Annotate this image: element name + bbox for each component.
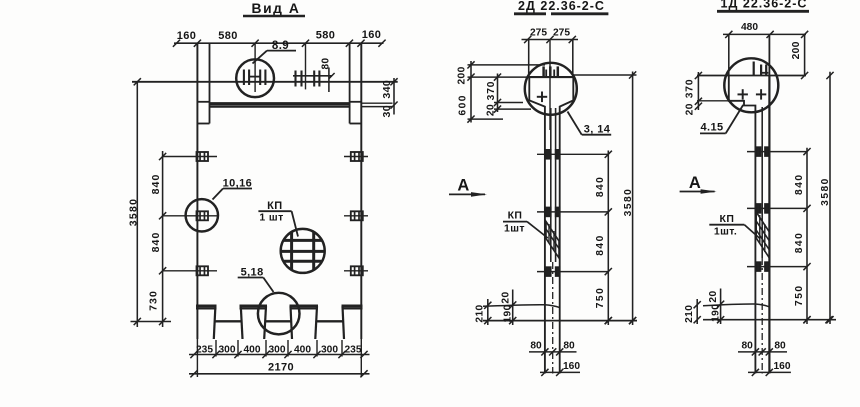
top dim 275 275	[522, 39, 579, 41]
svg-text:3580: 3580	[128, 198, 140, 227]
rebar outlets in circle 8.9	[243, 70, 245, 86]
embedded tab middle 2	[545, 207, 551, 216]
embedded tab right view 3	[755, 262, 760, 271]
shaft centre dash-dot	[552, 262, 554, 374]
svg-text:1 шт: 1 шт	[259, 212, 283, 224]
svg-text:3580: 3580	[623, 188, 634, 217]
svg-text:80: 80	[563, 341, 575, 352]
cross mark middle	[537, 96, 547, 98]
extension head right	[768, 34, 770, 75]
svg-text:5,18: 5,18	[241, 266, 264, 278]
rebar outlets middle head	[542, 66, 544, 77]
foot 1 right side	[214, 306, 216, 339]
title underline right	[717, 10, 809, 13]
svg-text:840: 840	[150, 232, 162, 253]
ext concrete top left	[468, 76, 530, 78]
extension line left leg outer edge	[196, 43, 198, 339]
embedded tab right view 2	[755, 204, 760, 213]
svg-text:80: 80	[530, 341, 542, 352]
rebar outlets right view	[753, 62, 755, 76]
svg-text:840: 840	[150, 174, 162, 195]
svg-text:1шт.: 1шт.	[714, 226, 737, 238]
grid horizontal 1	[283, 239, 322, 242]
foot 3 top edge double line	[290, 305, 319, 308]
beam bottom extension right upper	[361, 102, 392, 104]
svg-text:480: 480	[741, 22, 758, 33]
embedded tab middle 3	[545, 267, 551, 276]
svg-text:1Д 22.36-2-С: 1Д 22.36-2-С	[721, 0, 808, 11]
right dim 3580 right view	[829, 72, 831, 324]
svg-text:400: 400	[244, 344, 261, 355]
embedded tab right view 1	[755, 147, 760, 156]
bottom dim 80 80 right view	[738, 351, 787, 353]
svg-text:200: 200	[457, 66, 468, 84]
svg-text:400: 400	[294, 344, 311, 355]
embedded tab left leg 2	[197, 211, 209, 220]
extension lines to left leg tabs	[163, 156, 217, 158]
leader 8.9	[253, 51, 268, 64]
embedded tab left leg 1	[197, 152, 209, 161]
left overall dim line 3580	[136, 82, 138, 327]
extension centre rebar left	[254, 43, 256, 92]
svg-text:2Д 22.36-2-С: 2Д 22.36-2-С	[518, 0, 605, 13]
leader 3,14	[568, 112, 582, 135]
svg-text:840: 840	[595, 234, 606, 256]
column right edge	[768, 76, 770, 374]
ext slant bottom	[494, 108, 531, 110]
svg-text:750: 750	[794, 284, 805, 306]
svg-text:235: 235	[196, 344, 213, 355]
leader 10,16	[213, 189, 224, 200]
svg-text:3580: 3580	[820, 177, 831, 206]
cross marks right view	[738, 93, 748, 95]
svg-text:80: 80	[742, 341, 754, 352]
left leg step top	[197, 101, 209, 103]
svg-text:370: 370	[685, 79, 696, 99]
svg-text:1шт: 1шт	[504, 223, 525, 235]
right dim 3580 middle	[632, 72, 634, 326]
rebar outlets right group	[294, 71, 296, 87]
svg-text:340: 340	[381, 80, 393, 99]
svg-text:160: 160	[563, 361, 580, 372]
column head outline middle	[529, 77, 545, 373]
head bottom ext left	[697, 100, 729, 102]
svg-text:235: 235	[345, 344, 362, 355]
right dim 840-840-750 right view	[806, 148, 808, 324]
svg-text:КП: КП	[508, 210, 523, 222]
title underline middle	[514, 12, 546, 15]
overall dim line 2170	[189, 373, 370, 375]
top dimension line 160-580-580-160	[174, 42, 384, 44]
bottom dim extension verticals	[196, 339, 198, 377]
hatched opening circle KP	[281, 229, 325, 273]
grid vertical 2	[312, 232, 315, 269]
bottom dim 80 80 middle	[529, 351, 577, 353]
svg-text:840: 840	[595, 176, 606, 198]
svg-text:20: 20	[485, 104, 496, 116]
beam bottom second line	[210, 106, 350, 108]
dim 200 right view	[804, 34, 806, 75]
beam bottom thick line	[210, 102, 350, 106]
ext top of outlets	[468, 64, 546, 66]
extension head left	[728, 34, 730, 75]
right dim 840-840-750 middle	[607, 151, 609, 326]
svg-text:2170: 2170	[268, 361, 294, 373]
foot 2 top edge double line	[240, 305, 268, 308]
extension centre rebar right	[305, 43, 307, 89]
dim 20/190 middle	[512, 290, 514, 326]
left dim 200/600	[470, 61, 472, 123]
foot 1 top edge double line	[196, 305, 217, 308]
slanted line at column base middle	[483, 305, 560, 308]
bottom reference extension left	[131, 321, 172, 323]
right leg outer edge	[360, 43, 362, 339]
head top line with extensions right view	[697, 75, 806, 77]
svg-text:370: 370	[486, 81, 497, 101]
svg-text:КП: КП	[267, 200, 282, 212]
ext 600 bottom	[468, 118, 504, 120]
svg-text:30: 30	[381, 105, 393, 117]
dim 210 middle	[487, 299, 489, 325]
slanted line at column base right view	[703, 304, 769, 307]
leader 5,18	[263, 278, 273, 293]
svg-text:160: 160	[774, 361, 791, 372]
dim 20/190 right view	[720, 289, 722, 325]
extension centre line	[549, 40, 551, 131]
extension right head edge	[572, 40, 574, 78]
leader KP right view	[744, 225, 759, 239]
detail circle 10,16	[186, 199, 218, 231]
svg-text:20: 20	[708, 290, 719, 302]
detail circle 5,18	[258, 293, 300, 335]
foot 2 sides	[241, 306, 243, 339]
embedded tab right leg 1	[351, 152, 363, 161]
leader KP middle	[527, 222, 548, 238]
svg-text:200: 200	[791, 41, 802, 59]
svg-text:300: 300	[219, 344, 236, 355]
extension line left leg inner edge	[209, 43, 211, 123]
svg-text:840: 840	[794, 232, 805, 254]
svg-text:750: 750	[595, 287, 606, 309]
grid horizontal 3	[283, 260, 322, 263]
beam top line with extensions	[132, 81, 398, 83]
svg-text:840: 840	[794, 173, 805, 195]
KP channel right view	[756, 212, 769, 258]
top dim 480	[723, 33, 806, 35]
base line bottom middle	[483, 320, 637, 322]
right leg notch bottom	[350, 123, 362, 125]
foot 3 sides	[291, 306, 293, 339]
svg-text:80: 80	[321, 58, 332, 70]
left segment dim line 840-840-730	[162, 151, 164, 327]
detail circle right head	[724, 58, 778, 112]
bottom dim line 235-300-400-300-400-300-235	[189, 354, 370, 356]
svg-text:4.15: 4.15	[700, 122, 723, 134]
right leg inner edge	[349, 43, 351, 123]
bottom dim 160 right view	[748, 371, 791, 373]
title underline	[243, 15, 305, 18]
svg-text:190: 190	[710, 304, 721, 322]
svg-text:3, 14: 3, 14	[584, 124, 611, 136]
embedded tab right leg 2	[351, 211, 363, 220]
left dim 370/20	[497, 74, 499, 113]
dim 340/30 vertical line	[393, 78, 395, 115]
svg-text:20: 20	[685, 103, 696, 115]
shaft inner line right	[555, 108, 557, 262]
recessed bottom between feet	[215, 320, 242, 322]
shaft inner line left	[550, 108, 552, 262]
svg-text:600: 600	[458, 94, 469, 116]
column head top edge	[529, 76, 573, 78]
bottom dim 160 middle	[540, 371, 580, 373]
svg-text:300: 300	[321, 344, 338, 355]
svg-text:А: А	[457, 177, 469, 195]
svg-text:80: 80	[774, 341, 786, 352]
grid vertical 1	[290, 232, 293, 270]
svg-text:210: 210	[684, 305, 695, 323]
small vertical of 80 dim	[328, 68, 330, 93]
svg-text:300: 300	[269, 344, 286, 355]
shaft centre line right view	[761, 107, 763, 258]
embedded tab right leg 3	[351, 266, 363, 275]
svg-text:580: 580	[218, 30, 238, 42]
embedded tab left leg 3	[197, 266, 209, 275]
shaft centre dash-dot right view	[761, 258, 763, 374]
svg-text:160: 160	[177, 30, 197, 42]
leader KP	[292, 211, 298, 236]
extension left head edge	[528, 40, 530, 78]
svg-text:20: 20	[500, 291, 511, 303]
extension lines shaft tabs right view	[747, 151, 807, 153]
left dim 370/20 right view	[697, 72, 699, 110]
svg-text:275: 275	[553, 27, 570, 38]
extension lines at right leg tabs	[344, 156, 368, 158]
dim 210 right view	[696, 299, 698, 324]
beam bottom extension right lower	[361, 106, 392, 108]
extension lines shaft tabs middle	[537, 153, 608, 155]
svg-text:210: 210	[475, 304, 486, 322]
svg-text:Вид А: Вид А	[252, 1, 301, 16]
svg-text:КП: КП	[720, 213, 735, 225]
left leg notch bottom	[197, 123, 209, 125]
rebar connector line right group	[293, 75, 332, 77]
detail circle middle head	[525, 63, 577, 115]
svg-text:А: А	[689, 174, 701, 192]
detail circle 8.9	[236, 59, 274, 97]
column head outline right view	[729, 76, 756, 374]
svg-text:580: 580	[316, 29, 336, 41]
svg-text:190: 190	[503, 304, 514, 322]
base line bottom right view	[703, 319, 836, 321]
embedded tab middle 1	[545, 150, 551, 159]
KP channel middle	[546, 222, 559, 259]
svg-text:160: 160	[362, 29, 382, 41]
svg-text:730: 730	[148, 290, 160, 311]
right leg step top	[350, 101, 362, 103]
grid horizontal 2	[281, 250, 325, 253]
svg-text:275: 275	[530, 27, 547, 38]
svg-text:10,16: 10,16	[223, 177, 253, 189]
ext slant top	[494, 102, 523, 104]
foot 4 left side	[343, 306, 345, 339]
ext concrete top right middle	[573, 74, 636, 76]
svg-text:8.9: 8.9	[272, 40, 289, 52]
foot 4 top edge double line	[342, 305, 363, 308]
